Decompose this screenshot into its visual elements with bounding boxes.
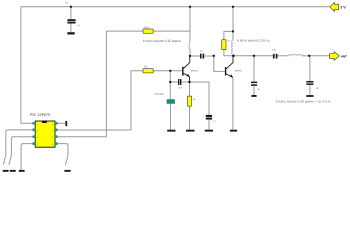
wire L1 to T1 collector node <box>189 49 191 56</box>
wire PIC pin5 to switch S3 <box>57 144 68 156</box>
inductor L1 <box>188 41 191 49</box>
wire rail to L1 <box>189 7 191 41</box>
IC U1 pin 1 <box>33 122 36 124</box>
wire C3 to ground <box>208 120 210 130</box>
junction dot T2 collector node <box>232 55 235 58</box>
capacitor C4 plates <box>200 54 202 59</box>
svg-text:4: 4 <box>37 143 38 146</box>
wire T1 collector node to C4 <box>190 55 200 57</box>
ground bar under C2 <box>67 32 74 34</box>
wire C2 bottom lead <box>70 24 72 33</box>
svg-text:2: 2 <box>37 129 38 132</box>
supply arrow 3V <box>330 2 339 11</box>
resistor SP1 <box>143 29 153 33</box>
switch S1 contact <box>3 155 6 165</box>
svg-text:BFR93: BFR93 <box>235 69 243 72</box>
ground bar under crystal <box>167 130 175 132</box>
wire Vdd drop to PIC pin1 <box>21 7 33 124</box>
wire base node to C1 <box>170 81 178 83</box>
wire L3 to output node <box>302 55 309 57</box>
IC U1 pin 7 <box>55 129 58 131</box>
wire PIC pin3 to switch S2 <box>11 137 33 156</box>
wire output bus T2 collector to C6 <box>233 55 273 57</box>
wire rail to L2 <box>232 7 234 40</box>
IC U1 PIC 12F675 body <box>35 121 55 147</box>
IC U1 pin 6 <box>55 136 58 138</box>
resistor R2 <box>188 96 192 106</box>
IC U1 pin 5 <box>55 143 58 145</box>
wire PIC pin7 to R1 <box>57 71 143 130</box>
wire +3V top rail <box>21 6 330 8</box>
ground bar under S2 <box>10 170 16 172</box>
wire C4 to T2 base tap <box>205 55 214 57</box>
wire C5 to ground <box>253 86 255 95</box>
junction dot T2 base tap <box>213 55 215 57</box>
wire emitter node to C3 <box>190 82 210 115</box>
junction dot rail/L2 <box>232 6 234 8</box>
svg-text:BFR93: BFR93 <box>191 70 199 73</box>
resistor R3 <box>222 40 226 50</box>
wire PIC pin6 to SP1 and L1 top <box>57 31 143 137</box>
svg-text:470 000: 470 000 <box>154 93 164 96</box>
junction dot T1 emitter node <box>188 81 190 83</box>
IC U1 pin 4 <box>33 143 36 145</box>
junction dot rail/C2 <box>70 6 72 8</box>
junction dot R3 branch <box>232 30 234 32</box>
wire C2 top lead <box>70 7 72 19</box>
wire PIC pin8 to ground bar <box>57 122 65 124</box>
wire shunt C5 branch <box>253 56 255 82</box>
inductor L2 <box>232 40 233 54</box>
switch S2 contact <box>9 155 12 165</box>
svg-text:7: 7 <box>52 129 53 132</box>
transistor T1 <box>183 56 190 82</box>
wire crystal to ground <box>170 103 172 130</box>
wire C6 to L3 <box>277 55 288 57</box>
inductor L3 <box>289 54 302 55</box>
svg-text:6 turns wound 1.35 queen: 6 turns wound 1.35 queen <box>143 39 181 43</box>
capacitor C5 plates <box>251 82 257 84</box>
ground bar under C5 <box>251 95 256 97</box>
ground bar under C7 <box>306 95 313 97</box>
wire R3 branch from supply drop <box>224 31 233 39</box>
junction dot base/crystal/C1 <box>169 81 171 83</box>
ground bar under T2 emitter <box>230 130 237 132</box>
ground bar under pin4 wire <box>19 170 25 172</box>
svg-text:SP1: SP1 <box>144 27 149 30</box>
transistor T1 emitter arrow <box>186 74 189 77</box>
svg-text:6 turns wound 1.35 cu: 6 turns wound 1.35 cu <box>237 38 270 42</box>
IC U1 pin 3 <box>33 136 36 138</box>
switch S3 contact <box>66 155 69 165</box>
transistor T2 emitter arrow <box>230 74 233 77</box>
ground bar under S1 <box>3 170 9 172</box>
svg-text:ANT: ANT <box>341 55 347 59</box>
junction dot T1 base <box>169 70 171 72</box>
svg-text:3 V: 3 V <box>340 6 346 10</box>
capacitor C3 plates <box>206 115 212 117</box>
wire R3 bottom to T2 collector node <box>224 50 234 56</box>
junction dot C7 tap <box>308 55 310 57</box>
transistor T2 <box>226 56 233 78</box>
wire R2 to ground <box>189 106 191 130</box>
wire emitter node to R2 <box>189 82 191 96</box>
wire R1 to T1 base <box>153 70 182 72</box>
junction dot T1 collector node <box>189 55 191 57</box>
svg-text:PIC 12F675: PIC 12F675 <box>30 113 50 117</box>
wire shunt C7 branch <box>309 56 311 81</box>
junction dot C5 tap <box>253 55 255 57</box>
wire PIC pin2 to switch S1 <box>6 130 33 156</box>
wire output node to ANT arrow <box>309 55 330 57</box>
ground bar under R2 <box>186 130 195 132</box>
svg-text:5: 5 <box>52 143 53 146</box>
ground bar at pin8 (vertical) <box>65 121 67 126</box>
wire C1 to emitter node <box>181 81 189 83</box>
svg-text:5 turns wound 1.35 queen + cu: 5 turns wound 1.35 queen + cu 0.5 m <box>276 100 331 104</box>
wire L2 bottom stub <box>232 54 234 56</box>
IC U1 notch <box>42 121 47 123</box>
wire T1 base node down to crystal <box>169 71 171 100</box>
IC U1 pin 2 <box>33 129 36 131</box>
capacitor C7 plates <box>306 81 313 83</box>
capacitor C6 plates <box>273 54 275 59</box>
crystal Q1 <box>167 100 175 104</box>
svg-text:8: 8 <box>52 123 53 126</box>
svg-text:R1: R1 <box>144 66 148 69</box>
IC U1 pin 8 <box>55 122 58 124</box>
svg-text:3: 3 <box>37 136 38 139</box>
ground bar under S3 <box>64 170 70 172</box>
capacitor C1 plates <box>178 79 179 85</box>
wire C7 to ground <box>309 85 311 95</box>
junction dot rail/L1 <box>189 6 191 8</box>
svg-text:1: 1 <box>37 123 38 126</box>
resistor R1 <box>143 69 153 73</box>
wire base tap down to T2 base <box>214 56 225 71</box>
wire T2 emitter to ground <box>232 78 234 130</box>
ground bar under C3 <box>205 130 213 132</box>
antenna arrow ANT <box>330 52 340 61</box>
wire PIC pin4 to ground <box>21 144 33 170</box>
svg-text:6: 6 <box>52 136 53 139</box>
capacitor C2 plates <box>67 19 75 21</box>
wire SP1 right to L1 branch <box>153 30 190 32</box>
